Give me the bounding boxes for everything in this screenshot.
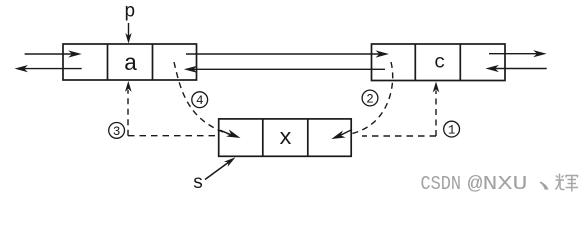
wire: left outer next-pointer into A cell1: [25, 50, 82, 57]
svg-text:x: x: [279, 126, 292, 151]
svg-text:a: a: [124, 51, 138, 77]
step 2 arrowhead inside X cell3: [340, 130, 352, 136]
wire: A.next -> C (upper middle line): [186, 50, 389, 57]
svg-text:CSDN: CSDN: [421, 173, 462, 195]
wire: C.next -> right outer: [489, 50, 547, 57]
svg-text:1: 1: [448, 124, 456, 138]
svg-text:4: 4: [196, 94, 204, 108]
step 2 dashed curve: from C cell1 down into X cell3: [350, 62, 393, 134]
step 4 dashed curve: from A cell3 down into X cell1: [174, 62, 237, 137]
node box C (3 cells): [372, 44, 506, 81]
wire: right outer prior-pointer into C cell3: [485, 65, 546, 72]
svg-text:c: c: [434, 52, 445, 74]
step 4 arrowhead inside X cell1: [220, 130, 232, 135]
step label (2): [362, 90, 378, 106]
svg-text:@NXU: @NXU: [468, 173, 528, 195]
pointer p arrow (down into node A): [125, 23, 131, 44]
step label (1): [444, 121, 460, 137]
watermark CSDN @NXU、辉: [421, 173, 579, 195]
pointer s arrow (up-right into node X bottom): [205, 157, 236, 179]
step 3 dashed wire: horizontal into X cell1: [128, 135, 217, 137]
node box A (3 cells): [63, 44, 197, 80]
wire: C.prior -> A (lower middle line): [184, 66, 385, 73]
node box X (3 cells): [219, 119, 352, 156]
step label (3): [109, 122, 125, 138]
svg-text:3: 3: [113, 125, 121, 139]
svg-text:2: 2: [366, 92, 374, 106]
wire: left outer prior-pointer out of A cell1: [15, 65, 82, 72]
step 3 dashed wire: vertical up into A bottom: [125, 81, 132, 136]
step 1 dashed wire: horizontal toward X cell3: [362, 135, 436, 137]
hui glyph (vector imitation): [556, 174, 579, 192]
step label (4): [192, 92, 208, 108]
ideographic comma: [540, 182, 549, 190]
step 1 dashed wire: vertical up into C bottom: [433, 82, 440, 137]
svg-text:p: p: [124, 1, 135, 23]
svg-text:s: s: [192, 172, 203, 194]
